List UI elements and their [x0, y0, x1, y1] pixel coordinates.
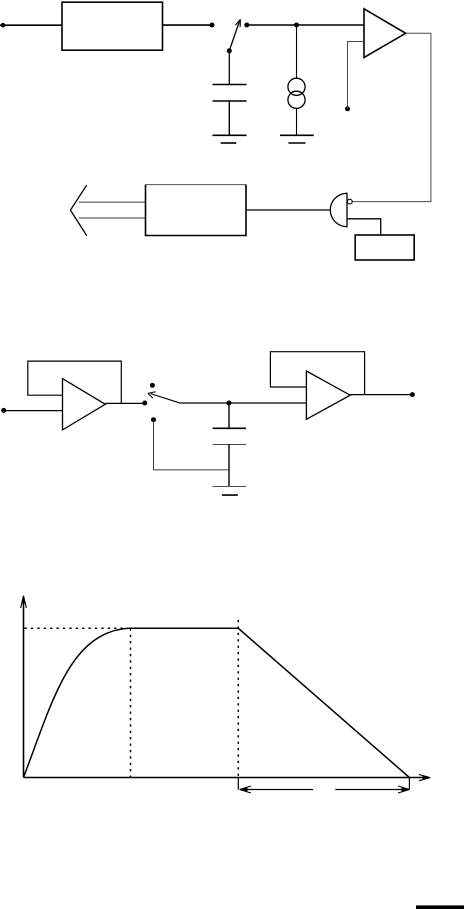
block A3 (small rectangle) [355, 235, 414, 260]
wire block A1 to switch contact [163, 24, 213, 26]
switch S2 pole dot [142, 401, 147, 406]
curve (rise, plateau, linear fall) [24, 628, 410, 777]
current source I1 (two overlapping circles) [288, 78, 305, 108]
switch S1 pivot dot [227, 48, 232, 53]
wire lower throw to node D [154, 420, 229, 470]
op-amp U4 (buffer triangle) [306, 371, 350, 419]
wire U3 output to switch S2 [105, 402, 145, 404]
node IN (input terminal dot) [1, 23, 6, 28]
wire input to block A1 [0, 24, 62, 26]
wire reference input to U1 [348, 42, 365, 109]
wire node B to comparator U1 [297, 24, 365, 26]
wire U4 feedback loop [270, 352, 364, 395]
switch S2 arm with arrow [148, 392, 179, 403]
dotted level line [25, 627, 131, 629]
wire node B to current source I1 [296, 25, 298, 79]
switch S2 upper throw dot [150, 383, 155, 388]
wire node C to capacitor C2 [228, 403, 230, 428]
wire I1 to ground [296, 108, 298, 135]
wire U1 output to gate U2 bubble [352, 33, 431, 201]
wire switch S2 to op-amp U4 [179, 402, 306, 404]
node (reference input dot) [345, 106, 350, 111]
y axis [21, 596, 27, 778]
wire U4 output to terminal [350, 394, 412, 396]
x axis [24, 775, 431, 781]
hollow arrow (output symbol, left) [70, 185, 145, 235]
measure arrow (double-headed, with gap) [240, 786, 410, 793]
block A2 (second row rectangle) [146, 184, 247, 186]
block A1 (top-left rectangle) [62, 2, 163, 50]
node B (junction dot) [294, 23, 299, 28]
ground (below C1) [213, 135, 247, 143]
dotted vertical t1 [130, 628, 132, 777]
wire U3 feedback loop [28, 361, 122, 403]
op-amp U3 (buffer triangle) [63, 379, 106, 430]
wire switch to node B [247, 24, 297, 26]
node (right switch contact dot) [244, 23, 249, 28]
node (left switch contact dot) [210, 23, 215, 28]
node IN2 (input terminal dot) [1, 408, 6, 413]
wire U2 lower input to block A3 [347, 219, 381, 235]
capacitor C1 [213, 85, 247, 136]
gate U2 inverting bubble [347, 199, 352, 204]
footer rule (bottom-right bar) [416, 905, 464, 909]
right boundary tick [408, 778, 410, 790]
capacitor C2 [213, 428, 246, 486]
gate U2 (left-facing half-circle with bubble) [330, 193, 347, 226]
wire input to op-amp U3 [4, 410, 63, 412]
wire A2 to gate U2 output [246, 209, 330, 211]
wire switch pivot to capacitor C1 [228, 51, 230, 85]
dotted vertical t2 [237, 620, 239, 777]
switch S1 arm with arrow [229, 19, 240, 50]
node OUT (output terminal dot) [410, 392, 415, 397]
node C (junction dot at capacitor C2) [226, 401, 231, 406]
ground (below C2) [213, 487, 246, 496]
switch S2 lower throw dot [151, 417, 156, 422]
op-amp U1 (comparator triangle) [364, 9, 406, 58]
ground (below I1) [280, 135, 314, 143]
left boundary tick [237, 778, 239, 790]
